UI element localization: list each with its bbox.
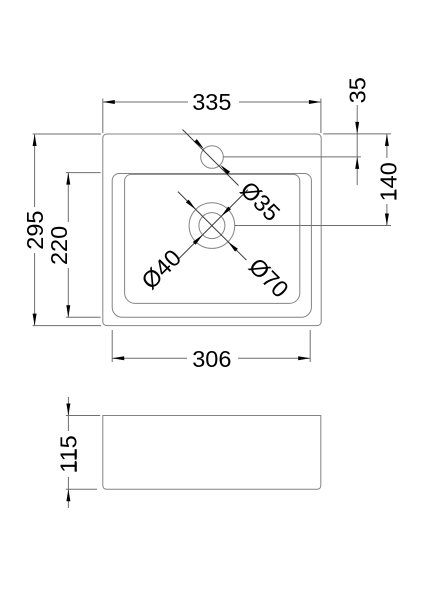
svg-text:Ø70: Ø70 <box>244 253 294 303</box>
arrow 115 top (outside, pointing down) <box>66 404 70 416</box>
arrow 140 top <box>385 134 389 146</box>
digit-1 foot serif (115 second 1) <box>75 449 77 458</box>
dim 220 extension lines <box>66 172 101 174</box>
arrow 335 left <box>103 100 115 104</box>
tap hole circle <box>201 146 224 169</box>
svg-text:220: 220 <box>46 226 72 265</box>
arrow 335 right <box>309 100 321 104</box>
arrow 306 right <box>298 356 310 360</box>
arrow 115 bottom (outside, pointing up) <box>66 489 70 501</box>
bowl rim <box>112 174 311 318</box>
drain outer circle <box>189 203 235 249</box>
digit-1 foot serif (140) <box>394 190 396 199</box>
leader drain d70 <box>178 192 247 261</box>
dim 115 extension lines <box>66 415 100 417</box>
leader tap hole <box>183 130 239 186</box>
sink outer outline (top view) <box>103 134 321 326</box>
svg-text:335: 335 <box>192 89 231 115</box>
arrow 35 bottom (outside, pointing up) <box>355 157 359 169</box>
arrow 295 bottom <box>33 314 37 326</box>
dim 306 line <box>112 357 310 359</box>
bowl bottom <box>125 174 300 303</box>
arrow d70 NW <box>186 200 196 210</box>
dim 35 line <box>356 105 358 185</box>
arrow 35 top (outside, pointing down) <box>355 122 359 134</box>
dim 115 line <box>67 397 69 508</box>
dim 306 extension lines <box>111 330 113 362</box>
arrow 220 top <box>66 173 70 185</box>
drain inner circle <box>199 213 225 239</box>
svg-text:115: 115 <box>56 435 82 472</box>
arrow tap NW <box>194 139 204 149</box>
dim 220 line <box>67 173 69 318</box>
arrow 220 bottom <box>66 305 70 317</box>
svg-text:Ø35: Ø35 <box>235 176 285 226</box>
dim 295 line <box>34 134 36 326</box>
side view body <box>103 416 321 490</box>
dim 35 extension line (top edge, right) <box>323 133 391 135</box>
digit-1 foot serif (115 first 1) <box>75 462 77 471</box>
dim 140 extension line (drain centre) <box>235 225 391 227</box>
arrow d70 SE <box>228 242 238 252</box>
arrow 140 bottom <box>385 214 389 226</box>
arrow d40 SW <box>193 235 203 245</box>
arrow 306 left <box>112 356 124 360</box>
dim 335 line <box>103 101 321 103</box>
dim 295 extension lines <box>33 133 101 135</box>
dim 35 extension line (tap centre) <box>223 156 361 158</box>
svg-text:35: 35 <box>344 77 370 103</box>
arrow 295 top <box>33 134 37 146</box>
arrow d40 NE <box>221 207 231 217</box>
svg-text:140: 140 <box>375 162 401 201</box>
svg-text:306: 306 <box>192 346 231 372</box>
dim 140 line <box>386 134 388 226</box>
svg-text:295: 295 <box>22 210 48 249</box>
leader drain d40 <box>179 190 248 259</box>
arrow tap SE <box>220 165 230 175</box>
svg-text:Ø40: Ø40 <box>136 244 186 294</box>
dim 335 extension lines <box>102 99 104 134</box>
